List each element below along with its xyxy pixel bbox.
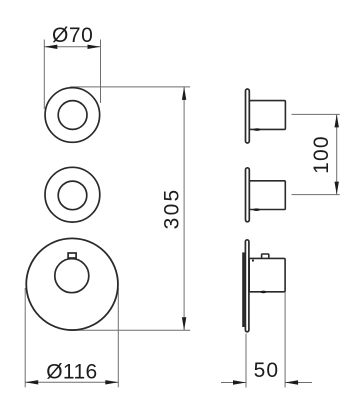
dimension Ø70 label (52, 24, 94, 47)
bottom assembly plate (245, 240, 249, 332)
dimension Ø70 extension line left (43, 40, 45, 110)
dimension 305 extension line bottom (72, 329, 190, 331)
bottom assembly button tab (262, 254, 269, 259)
middle assembly plate (246, 168, 250, 222)
dimension 305 label (161, 188, 184, 230)
middle assembly cylinder (249, 181, 285, 210)
dimension 100 extension line bottom (292, 194, 340, 196)
dimension 100 label (310, 135, 333, 174)
bottom knob notch (68, 253, 76, 258)
top assembly tick (254, 128, 261, 131)
dimension Ø116 line (25, 381, 118, 383)
dimension 305 arrow bottom (182, 317, 186, 330)
dimension 50 line right tail (285, 382, 312, 384)
bottom assembly tick (260, 291, 266, 294)
svg-text:Ø70: Ø70 (52, 24, 94, 47)
svg-text:50: 50 (254, 359, 280, 382)
dimension 305 extension line top (70, 86, 190, 88)
dimension 50 label (254, 359, 280, 382)
bottom knob inner circle (55, 259, 89, 293)
bottom assembly cylinder (249, 258, 285, 291)
dimension Ø70 line (44, 46, 100, 48)
dimension 100 extension line top (292, 113, 340, 115)
dimension 100 arrow bottom (335, 182, 339, 195)
dimension Ø116 arrow left (25, 380, 38, 384)
dimension Ø116 extension line right (117, 288, 119, 387)
middle knob outer circle (45, 167, 100, 222)
dimension 100 line (336, 114, 338, 194)
top assembly cylinder (249, 101, 285, 130)
bottom assembly back strip (242, 252, 245, 327)
svg-text:100: 100 (310, 135, 333, 174)
middle knob inner circle (58, 181, 87, 210)
bottom assembly dot (252, 260, 254, 262)
dimension 50 extension line right (284, 292, 286, 388)
middle assembly tick (253, 208, 260, 211)
dimension Ø116 extension line left (24, 288, 26, 387)
dimension 50 extension line left (245, 334, 247, 388)
dimension 50 line left tail (221, 382, 246, 384)
dimension 50 arrow right (285, 380, 298, 384)
dimension Ø70 arrow left (44, 45, 57, 49)
dimension Ø70 extension line right (100, 40, 102, 104)
top assembly plate (246, 89, 250, 143)
bottom knob outer circle (26, 238, 118, 330)
dimension 100 arrow top (335, 114, 339, 127)
dimension 305 line (183, 87, 185, 330)
svg-text:305: 305 (161, 188, 184, 230)
dimension 305 arrow top (182, 87, 186, 100)
top knob outer circle (45, 88, 100, 143)
svg-text:Ø116: Ø116 (46, 361, 97, 384)
top knob inner circle (58, 101, 87, 130)
dimension 50 arrow left (233, 380, 246, 384)
dimension Ø116 label (46, 361, 97, 384)
dimension Ø116 arrow right (105, 380, 118, 384)
dimension Ø70 arrow right (88, 45, 101, 49)
